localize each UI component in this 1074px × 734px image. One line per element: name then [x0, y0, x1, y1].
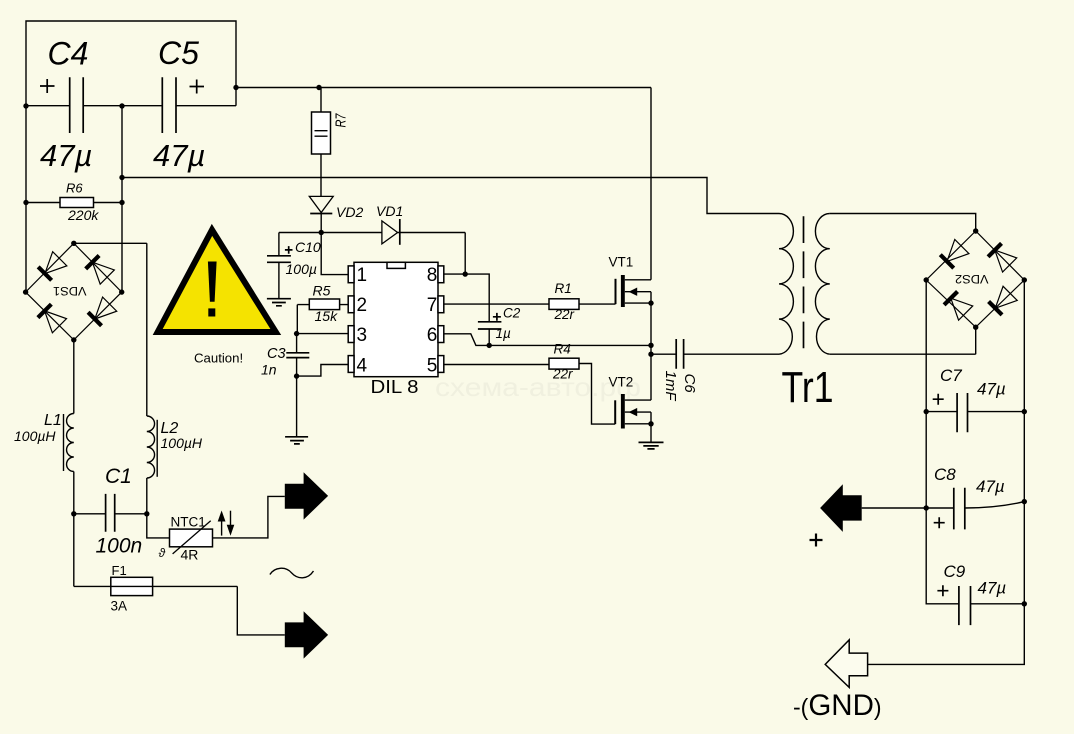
pin 1 — [348, 266, 354, 283]
pin 5 — [438, 356, 444, 373]
svg-text:C3: C3 — [267, 346, 286, 362]
svg-text:R4: R4 — [554, 342, 571, 357]
arrow up indicator — [221, 519, 223, 536]
svg-text:VT1: VT1 — [609, 255, 634, 270]
diode VDS1 top-right — [84, 254, 114, 284]
svg-text:100µ: 100µ — [286, 261, 317, 277]
diode VDS2 top-right — [986, 242, 1016, 272]
diode VDS1 bottom-left — [36, 302, 66, 332]
svg-text:22r: 22r — [552, 367, 573, 382]
ground under C10 — [267, 299, 291, 306]
svg-text:C1: C1 — [105, 465, 132, 488]
svg-text:100n: 100n — [96, 535, 143, 558]
AC tilde symbol — [270, 568, 314, 578]
wire L1 to fuse — [73, 472, 75, 587]
diode VDS2 top-left — [938, 239, 968, 269]
wire NTC1 to arrow — [213, 496, 285, 538]
arrow GND output — [825, 640, 867, 688]
wire mid rail x=122 — [121, 106, 123, 292]
wire L2 to NTC — [147, 478, 170, 538]
svg-text:NTC1: NTC1 — [171, 515, 206, 530]
diode VDS2 bottom-right — [987, 286, 1017, 316]
diode VD2 — [309, 196, 333, 212]
svg-text:-(GND): -(GND) — [793, 689, 882, 722]
svg-text:3: 3 — [357, 325, 368, 346]
svg-text:VD1: VD1 — [376, 203, 403, 219]
capacitor C3 — [286, 353, 309, 358]
wire VD1 to pin8 — [398, 233, 466, 275]
svg-text:C5: C5 — [158, 35, 199, 71]
wire VT1 source to C6 node — [650, 303, 652, 400]
inductor L2 — [147, 416, 155, 478]
svg-text:47µ: 47µ — [153, 138, 205, 173]
resistor R1 — [549, 299, 579, 310]
op-amp/driver IC U1 DIL 8 body — [354, 262, 438, 376]
capacitor C8 — [954, 488, 965, 530]
fuse F1 — [111, 577, 153, 595]
arrow mains input top — [285, 472, 328, 519]
svg-text:C4: C4 — [48, 36, 89, 72]
transformer Tr1 core — [803, 216, 805, 348]
svg-text:22r: 22r — [554, 307, 575, 322]
wire pin1 branch — [321, 233, 348, 275]
svg-text:DIL 8: DIL 8 — [371, 376, 419, 397]
ground under C3 — [285, 437, 308, 444]
bridge rectifier VDS1 — [26, 243, 122, 340]
svg-text:F1: F1 — [112, 563, 127, 578]
svg-text:47µ: 47µ — [976, 477, 1005, 496]
svg-text:Tr1: Tr1 — [782, 363, 834, 412]
wire C4/C5 row — [26, 105, 236, 107]
capacitor C5 — [162, 77, 176, 133]
svg-text:C8: C8 — [934, 465, 956, 484]
resistor R7 — [312, 112, 331, 154]
svg-text:R7: R7 — [333, 113, 350, 127]
capacitor C6 — [676, 339, 683, 369]
wire VT2 source to ground — [650, 424, 652, 443]
bridge rectifier VDS2 — [926, 231, 1024, 327]
caution triangle — [153, 224, 282, 335]
wire VT1 drain drop x=651 — [650, 88, 652, 280]
svg-text:L1: L1 — [44, 412, 62, 429]
svg-text:VT2: VT2 — [609, 375, 634, 390]
pin 4 — [348, 356, 354, 373]
transformer Tr1 secondary winding — [815, 214, 829, 355]
capacitor C10 — [278, 233, 280, 299]
wire pin 3 — [297, 333, 349, 335]
svg-text:Caution!: Caution! — [194, 351, 243, 366]
svg-text:5: 5 — [427, 356, 438, 377]
svg-text:R6: R6 — [66, 181, 83, 196]
wire pin 8 to C2 — [444, 274, 489, 322]
svg-text:C2: C2 — [503, 306, 521, 321]
svg-text:100µH: 100µH — [161, 435, 203, 451]
IC notch — [387, 262, 405, 268]
pin 6 — [438, 326, 444, 343]
capacitor C9 — [959, 586, 971, 625]
svg-text:6: 6 — [427, 325, 438, 346]
resistor R5 — [309, 299, 339, 310]
wire output left rail — [926, 280, 959, 604]
svg-text:C7: C7 — [940, 366, 962, 385]
wire + output — [862, 507, 927, 509]
resistor R4 — [549, 358, 579, 369]
svg-text:C9: C9 — [944, 562, 966, 581]
wire VDS1 bottom to L1 — [73, 340, 75, 414]
svg-text:1: 1 — [357, 265, 368, 286]
svg-text:100µH: 100µH — [14, 428, 56, 444]
svg-text:15k: 15k — [315, 308, 339, 324]
wire fuse to arrow — [237, 586, 284, 635]
wire pin 6 jog to C2 bottom — [444, 334, 489, 346]
capacitor C4 — [70, 77, 84, 133]
svg-text:C6: C6 — [681, 374, 698, 394]
wire pin 5 to R4 — [444, 364, 549, 366]
resistor R6 — [60, 198, 94, 208]
diode VD1 — [382, 221, 398, 244]
svg-text:4R: 4R — [181, 547, 199, 563]
wire secondary top to VDS2 — [830, 214, 976, 232]
svg-text:47µ: 47µ — [978, 579, 1007, 598]
svg-text:8: 8 — [427, 265, 438, 286]
diode VDS2 bottom-left — [942, 290, 972, 320]
svg-text:VDS2: VDS2 — [955, 272, 989, 284]
capacitor C2 — [478, 322, 502, 329]
thermistor NTC1 — [170, 529, 213, 547]
wire output right rail — [868, 280, 1025, 664]
diode VDS1 top-left — [36, 252, 66, 282]
wire VDS1 top to L2 — [74, 243, 147, 416]
transformer Tr1 primary winding — [779, 214, 793, 355]
svg-text:1mF: 1mF — [662, 371, 679, 402]
svg-text:C10: C10 — [295, 239, 321, 255]
svg-text:R5: R5 — [313, 283, 331, 299]
pin 2 — [348, 296, 354, 313]
pin 3 — [348, 326, 354, 343]
svg-text:4: 4 — [357, 356, 368, 377]
label + output — [810, 534, 823, 547]
wire top V+ feed y=87.5 — [236, 87, 651, 89]
svg-text:VD2: VD2 — [336, 204, 363, 220]
svg-text:2: 2 — [357, 295, 368, 316]
arrow down indicator — [230, 511, 232, 527]
wire left rail x=26 — [25, 106, 27, 292]
svg-text:VDS1: VDS1 — [53, 284, 87, 296]
wire pin 4 jog — [297, 365, 349, 377]
arrow + output — [820, 484, 862, 532]
svg-text:1µ: 1µ — [496, 326, 512, 341]
svg-text:R1: R1 — [555, 281, 572, 296]
ground under VT2 — [639, 442, 664, 449]
wire pin 7 to R1 — [444, 303, 549, 305]
wire mains bus y=177.5 to transformer — [122, 178, 779, 214]
wire top box around C4 C5 — [26, 21, 236, 106]
svg-text:1n: 1n — [261, 362, 277, 378]
wire C2 junction to VT rail — [489, 344, 651, 346]
svg-text:7: 7 — [427, 295, 438, 316]
svg-text:47µ: 47µ — [40, 138, 92, 173]
capacitor C7 — [957, 393, 967, 432]
svg-text:3A: 3A — [111, 599, 128, 614]
svg-text:220k: 220k — [67, 207, 99, 223]
capacitor C1 — [106, 494, 115, 532]
wire secondary bottom to VDS2 — [830, 327, 976, 354]
pin 8 — [438, 266, 444, 283]
inductor L1 — [67, 414, 74, 472]
diode VDS1 bottom-right — [86, 297, 116, 327]
svg-text:47µ: 47µ — [977, 380, 1006, 399]
wire VD2 junction row y=232.5 — [279, 213, 382, 233]
svg-text:ϑ: ϑ — [159, 546, 166, 560]
arrow mains input bottom — [285, 611, 328, 658]
wire to ground from C3 — [296, 376, 298, 437]
pin 7 — [438, 296, 444, 313]
